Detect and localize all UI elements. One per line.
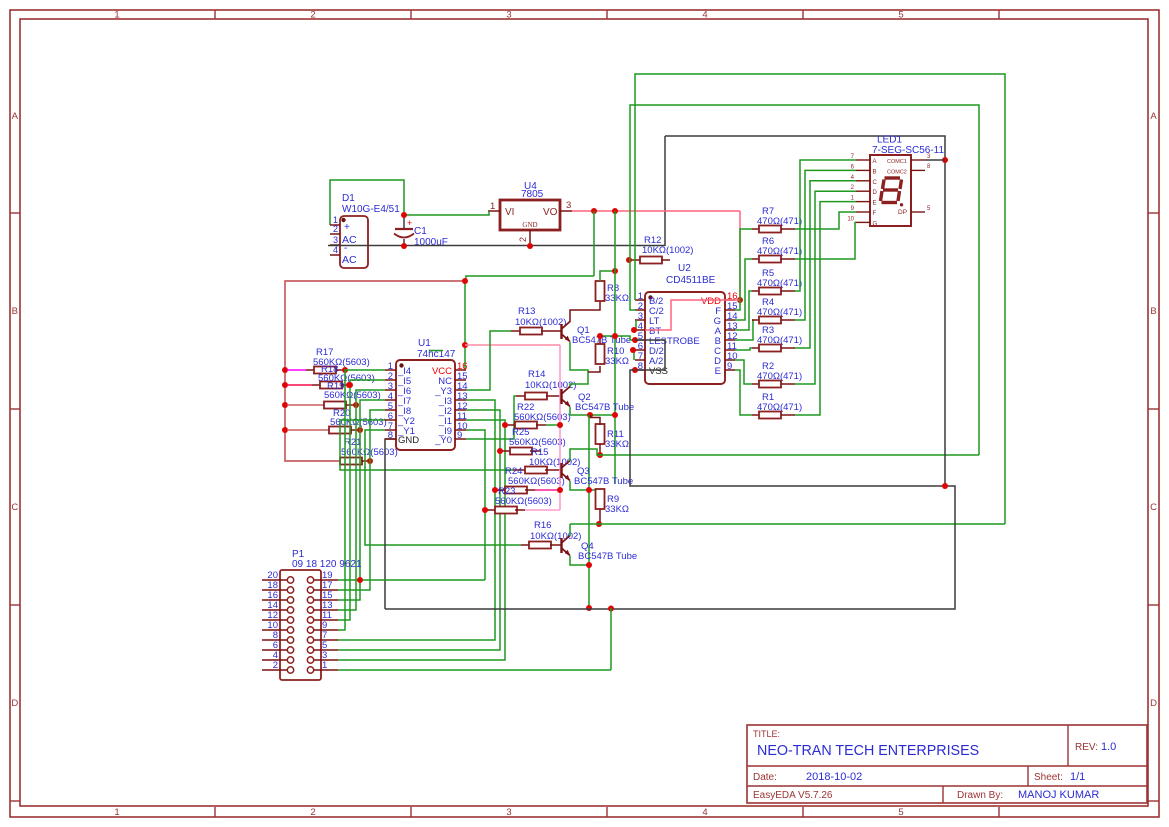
wire: U1 _I2 pin12 down to P1 pin5 [338, 410, 500, 650]
svg-text:4: 4 [333, 245, 338, 255]
node: junction (500,451) [497, 448, 503, 454]
wire: U2 F pin15 to R7 [735, 229, 752, 310]
LED1 pin stub segment E [856, 201, 870, 203]
wire: P1 pin1 riser to GND rail [610, 608, 612, 670]
P1 right pin 5 stub [314, 649, 338, 651]
P1 right pin 3 stub [314, 659, 338, 661]
wire: green jumper U2 pins 3-4 [635, 320, 637, 330]
LED1 pin stub segment A [856, 159, 870, 161]
svg-text:09 18 120 9621: 09 18 120 9621 [292, 559, 362, 570]
node: U2 VSS pin8 [632, 367, 638, 373]
wire: red segment to R20 [287, 429, 329, 431]
node: riser x615 crossing [612, 333, 618, 339]
voltage regulator U4 7805 [500, 200, 560, 230]
7-segment display LED1 [870, 155, 911, 226]
svg-text:GND: GND [522, 221, 537, 229]
U2 left pin 3 stub [635, 319, 645, 321]
border tick right [1148, 800, 1159, 802]
P1 left pin 12 stub [262, 619, 287, 621]
LED1 pin stub segment F [856, 211, 870, 213]
P1 right pin 9 stub [314, 629, 338, 631]
LED1 pin stub segment G [856, 221, 870, 223]
wire: Q3 emitter row [570, 481, 600, 490]
transistor Q1 [560, 324, 562, 339]
wire: green jumper U2 pins 6-7 [633, 350, 635, 360]
svg-text:560KΩ(5603): 560KΩ(5603) [514, 412, 571, 423]
P1 left pin 10 stub [262, 629, 287, 631]
svg-text:VI: VI [505, 207, 514, 218]
U1 right pin 15 stub [455, 379, 466, 381]
resistor R6 [752, 258, 759, 260]
svg-text:COMC1: COMC1 [887, 159, 907, 165]
node: junction (505,425) [502, 422, 508, 428]
D1 pin at y=234 [330, 233, 340, 235]
svg-text:E: E [873, 201, 877, 207]
wire: U1 pin3 net down to P1 pin13 [338, 390, 385, 610]
U1 right pin 16 stub [455, 369, 466, 371]
svg-text:B: B [1150, 306, 1156, 317]
P1 right pin 17 stub [314, 589, 338, 591]
wire: R10 bottom to cascade [588, 366, 600, 372]
svg-text:33KΩ: 33KΩ [605, 439, 629, 450]
wire: C1 top to U4 VI (green) [404, 211, 489, 215]
svg-text:9: 9 [727, 361, 732, 372]
node: R11 bottom junction [597, 452, 603, 458]
node: resistor tap (360,430) [357, 427, 363, 433]
wire: black top loop to COMC1 [665, 136, 945, 486]
wire: C1 top lead [403, 215, 405, 229]
wire: U1 _I3 pin13 down to P1 pin7 [338, 400, 495, 640]
svg-text:VO: VO [543, 207, 558, 218]
P1 right pin 1 stub [314, 669, 338, 671]
svg-text:DP: DP [898, 209, 907, 216]
ground rail (black) from D1 pin3 to right [328, 245, 665, 247]
U1 right pin 10 stub [455, 429, 466, 431]
wire: U1 _Y0 pin9 to R14 riser [466, 396, 516, 439]
U2 left pin 2 stub [635, 309, 645, 311]
P1 right pin 13 stub [314, 609, 338, 611]
LED1 digit 8 [885, 176, 901, 179]
U4 pin 3 stub [560, 210, 572, 212]
svg-text:5: 5 [898, 807, 903, 818]
P1 left pin 8 stub [262, 639, 287, 641]
U4 pin 1 stub [488, 210, 500, 212]
wire: pink +5V drop to U2 VDD [739, 211, 741, 300]
U2 left pin 6 stub [635, 349, 645, 351]
node: rectifier output junction [401, 212, 407, 218]
LED1 COMC1 stub [911, 159, 925, 161]
wire: U1 pin6 (_Y2) to R24 [340, 420, 513, 470]
border tick top [214, 10, 216, 19]
wire: +5V rail from U4 VO (pink) [572, 210, 740, 212]
svg-text:A: A [873, 159, 877, 165]
svg-text:D: D [873, 190, 878, 196]
wire: VCC riser to U1 pin16 [464, 281, 466, 370]
border tick left [10, 408, 20, 410]
node: U2 VDD pin16 [737, 297, 743, 303]
wire: long green riser x=615 [614, 211, 616, 484]
U2 right pin 16 stub [725, 299, 735, 301]
resistor R12 [631, 259, 640, 261]
border tick bottom [214, 807, 216, 817]
U2 left pin 1 stub [635, 299, 645, 301]
P1 left pin 20 stub [262, 579, 287, 581]
P1 left pin 4 stub [262, 659, 287, 661]
resistor R14 [516, 395, 525, 397]
node: junction (495,490) [492, 487, 498, 493]
svg-text:3: 3 [506, 807, 511, 818]
U1 right pin 11 stub [455, 419, 466, 421]
node: Q3 emitter junction [586, 487, 592, 493]
D1 pin at y=225 [330, 224, 340, 226]
node: R9 bottom junction [596, 521, 602, 527]
svg-text:C: C [873, 180, 878, 186]
node: R10 top [597, 333, 603, 339]
wire: R23 deep pink link [535, 489, 560, 491]
svg-text:560KΩ(5603): 560KΩ(5603) [495, 496, 552, 507]
border tick top [410, 10, 412, 19]
wire: U2 A pin13 to R5 [735, 291, 752, 330]
U2 left pin 8 stub [635, 369, 645, 371]
svg-text:470Ω(471): 470Ω(471) [757, 335, 802, 346]
svg-text:B: B [873, 169, 877, 175]
resistor R21 [340, 458, 362, 465]
resistor R4 [752, 319, 759, 321]
U2 left pin 5 stub [635, 339, 645, 341]
U1 left pin 6 stub [385, 419, 396, 421]
svg-text:EasyEDA V5.7.26: EasyEDA V5.7.26 [753, 790, 833, 801]
svg-text:AC: AC [342, 254, 357, 266]
svg-text:1: 1 [114, 10, 119, 21]
wire: inner green loop (C/2 net) [630, 105, 979, 455]
node: C1 bottom on GND rail [401, 243, 407, 249]
svg-text:U1: U1 [418, 338, 431, 349]
border tick bottom [998, 807, 1000, 817]
svg-text:D1: D1 [342, 193, 355, 204]
P1 left pin 6 stub [262, 649, 287, 651]
node: bus junction y=430 [282, 427, 288, 433]
wire: red segment to R19 [287, 404, 324, 406]
svg-text:-: - [344, 243, 347, 254]
svg-text:B: B [12, 306, 18, 317]
svg-text:2018-10-02: 2018-10-02 [806, 771, 862, 783]
svg-text:3: 3 [566, 200, 571, 211]
D1 pin1 indicator dot [341, 218, 345, 222]
border tick left [10, 604, 20, 606]
wire: Q2 emitter row [570, 407, 615, 415]
svg-text:470Ω(471): 470Ω(471) [757, 278, 802, 289]
wire: light pink column [559, 345, 561, 510]
P1 left pin 14 stub [262, 609, 287, 611]
node: R8 top junction [612, 268, 618, 274]
wire: U1 pin2 net down to P1 pin11 [338, 380, 385, 620]
wire: R7 to LED segment F [795, 212, 856, 229]
U1 pin1 indicator dot [399, 363, 403, 367]
svg-text:10: 10 [847, 216, 854, 222]
border tick bottom [410, 807, 412, 817]
border tick right [1148, 408, 1159, 410]
U2 right pin 11 stub [725, 349, 735, 351]
svg-text:4: 4 [702, 10, 707, 21]
wire: black VSS to ground loop [385, 370, 955, 609]
wire: U2 B pin12 to R4 [735, 320, 753, 340]
wire: R6 to LED segment G [795, 222, 856, 259]
svg-text:10KΩ(1002): 10KΩ(1002) [525, 380, 576, 391]
U2 right pin 15 stub [725, 309, 735, 311]
svg-text:33KΩ: 33KΩ [605, 356, 629, 367]
svg-text:Drawn By:: Drawn By: [957, 790, 1003, 801]
node: U4 GND on GND rail [527, 243, 533, 249]
svg-text:560KΩ(5603): 560KΩ(5603) [330, 417, 387, 428]
node: VSS junction [942, 483, 948, 489]
svg-text:1.0: 1.0 [1101, 741, 1116, 753]
svg-text:CD4511BE: CD4511BE [666, 275, 716, 286]
resistor R8 [596, 281, 605, 301]
wire: AC input pin1 to top of C1 (green) [330, 180, 404, 225]
U1 right pin 13 stub [455, 399, 466, 401]
wire: black LESTROBE jumper to VSS [635, 340, 665, 370]
svg-text:470Ω(471): 470Ω(471) [757, 246, 802, 257]
P1 right pin 7 stub [314, 639, 338, 641]
svg-text:3: 3 [333, 235, 338, 245]
svg-text:D: D [11, 698, 18, 709]
wire: crimson segment to R18 [287, 384, 312, 386]
P1 right pin 19 stub [314, 579, 338, 581]
wire: magenta segment to R17 [287, 369, 306, 371]
P1 right pin 11 stub [314, 619, 338, 621]
svg-text:G: G [873, 221, 878, 227]
resistor R25 (R15 row) [502, 450, 510, 452]
svg-text:+: + [344, 222, 350, 233]
LED1 pin stub segment B [856, 169, 870, 171]
node: COMC1 junction [942, 157, 948, 163]
wire: U1 GND pin8 black to bottom rail [385, 439, 396, 609]
IC U1 74hc147 [396, 360, 455, 450]
svg-text:A: A [1150, 111, 1157, 122]
border tick bottom [606, 807, 608, 817]
U1 left pin 1 stub [385, 369, 396, 371]
LED1 pin stub segment C [856, 180, 870, 182]
node: junction (560,425) [557, 422, 563, 428]
wire: R10 top lead [599, 336, 601, 344]
node: +5V junction B [612, 208, 618, 214]
node: emitter bus on GND rail [586, 605, 592, 611]
U2 right pin 12 stub [725, 339, 735, 341]
resistor R17 [306, 369, 314, 371]
wire: emitter bus x=589 [588, 415, 590, 608]
svg-text:7-SEG-SC56-11: 7-SEG-SC56-11 [872, 145, 945, 156]
svg-text:1/1: 1/1 [1070, 771, 1085, 783]
U2 left pin 4 stub [635, 329, 645, 331]
resistor R16 [521, 544, 529, 546]
resistor R22 [507, 424, 515, 426]
LED1 pin stub segment D [856, 190, 870, 192]
U1 left pin 5 stub [385, 409, 396, 411]
resistor R11 [596, 424, 605, 444]
P1 right pin 15 stub [314, 599, 338, 601]
node: red bus to green riser [462, 278, 468, 284]
U1 left pin 3 stub [385, 389, 396, 391]
svg-text:470Ω(471): 470Ω(471) [757, 307, 802, 318]
node: bus junction y=405 [282, 402, 288, 408]
transistor Q3 [560, 463, 562, 478]
border tick bottom [802, 807, 804, 817]
svg-text:C: C [11, 502, 18, 513]
svg-text:NEO-TRAN TECH ENTERPRISES: NEO-TRAN TECH ENTERPRISES [757, 743, 979, 759]
wire: U1 pin5 net down to P1 pin17 [338, 410, 385, 590]
wire: R1 to LED segment E [795, 202, 856, 415]
U1 left pin 7 stub [385, 429, 396, 431]
svg-text:2: 2 [518, 237, 528, 242]
resistor R23 [497, 489, 505, 491]
svg-text:MANOJ KUMAR: MANOJ KUMAR [1018, 789, 1099, 801]
resistor R13 [511, 330, 520, 332]
node: resistor tap (349,385) [346, 382, 352, 388]
resistor R1 [752, 414, 759, 416]
wire: black GND riser to top loop [664, 136, 666, 246]
svg-text:470Ω(471): 470Ω(471) [757, 402, 802, 413]
svg-text:10KΩ(1002): 10KΩ(1002) [642, 245, 693, 256]
wire: R2 to LED segment D [795, 191, 856, 384]
wire: pink tap to light pink column [465, 344, 560, 346]
wire: U1 pin7 (_Y1) to R16 [365, 430, 521, 545]
svg-text:8: 8 [388, 430, 393, 441]
transistor Q2 [560, 389, 562, 404]
border tick right [1148, 212, 1159, 214]
svg-text:1000uF: 1000uF [414, 237, 448, 248]
D1 pin at y=255 [330, 254, 340, 256]
svg-text:2: 2 [310, 10, 315, 21]
LED1 COMC2 stub [911, 169, 925, 171]
U1 left pin 4 stub [385, 399, 396, 401]
resistor R19 [324, 402, 346, 409]
wire: U1 pin4 net down to P1 pin15 [338, 400, 385, 600]
red supply bus vertical [285, 281, 465, 461]
wire: U1 _I9 pin10 down to P1 pin19 riser [466, 430, 485, 580]
node: junction (485,510) [482, 507, 488, 513]
wire: Q4 collector up to B net [569, 524, 571, 536]
svg-text:A: A [12, 111, 19, 122]
wire: U2 D pin10 to R2 [735, 360, 752, 384]
U2 pin1 indicator dot [648, 295, 652, 299]
svg-text:4: 4 [702, 807, 707, 818]
connector P1 [280, 570, 321, 680]
wire: pink VDD to BT pin4 of U2 [645, 300, 740, 330]
U2 left pin 7 stub [635, 359, 645, 361]
svg-text:BC547B Tube: BC547B Tube [574, 476, 633, 487]
svg-text:2: 2 [310, 807, 315, 818]
wire: U1 pin1 net down to P1 pin9 [338, 370, 385, 630]
svg-text:R14: R14 [528, 369, 545, 380]
wire: U2 G pin14 to R6 [735, 259, 752, 320]
node: Q2 emitter junction [587, 412, 593, 418]
wire: P1 pin19 to riser [338, 579, 485, 581]
resistor (bottom of pink loop) [487, 509, 495, 511]
wire: U1 _I1 pin11 down to P1 pin3 [338, 420, 505, 660]
svg-text:9: 9 [457, 430, 462, 441]
wire: stub over U1 label [429, 350, 443, 352]
border tick top [802, 10, 804, 19]
svg-text:33KΩ: 33KΩ [605, 504, 629, 515]
svg-text:R16: R16 [534, 520, 551, 531]
node: U2 LESTROBE pin5 [632, 337, 638, 343]
U2 right pin 9 stub [725, 369, 735, 371]
border tick top [606, 10, 608, 19]
U2 right pin 13 stub [725, 329, 735, 331]
resistor R18 [312, 384, 320, 386]
wire: R10 top to LESTROBE [600, 336, 635, 340]
resistor R20 [329, 427, 351, 434]
bridge rectifier D1 [340, 216, 368, 268]
wire: +5V down to VCC riser [593, 211, 595, 276]
wire: R9 bottom lead [599, 509, 601, 524]
wire: R22 to pink column [546, 424, 560, 426]
wire: Q1 emitter cascade to Q2 collector [570, 342, 588, 388]
wire: outer green loop (B/2 net) [635, 74, 1005, 524]
U1 right pin 14 stub [455, 389, 466, 391]
U1 left pin 2 stub [385, 379, 396, 381]
wire: C1 bottom lead [403, 239, 405, 246]
svg-text:1: 1 [114, 807, 119, 818]
svg-text:REV:: REV: [1075, 742, 1098, 753]
resistor R7 [752, 228, 759, 230]
wire: U2 E pin9 to R1 [735, 370, 752, 415]
resistor R24 [513, 469, 525, 471]
U4 pin 2 stub (GND) [529, 230, 531, 246]
P1 left pin 18 stub [262, 589, 287, 591]
node: R12 left junction [626, 257, 632, 263]
node: resistor tap (370,461) [367, 458, 373, 464]
svg-text:Date:: Date: [753, 772, 777, 783]
wire: U1 _Y3 pin14 to R13 [466, 331, 511, 390]
svg-text:LED1: LED1 [877, 135, 902, 146]
svg-text:W10G-E4/51: W10G-E4/51 [342, 204, 400, 215]
wire: R5 to LED segment A [795, 160, 856, 291]
resistor R9 [596, 489, 605, 509]
svg-text:Sheet:: Sheet: [1034, 772, 1063, 783]
U1 right pin 12 stub [455, 409, 466, 411]
P1 left pin 16 stub [262, 599, 287, 601]
node: pin19 crossing junction [357, 577, 363, 583]
wire: Q1 collector up to R8 [570, 301, 600, 322]
U1 right pin 9 stub [455, 438, 466, 440]
transistor Q4 [560, 538, 562, 553]
node: VCC riser / pink tap [462, 342, 468, 348]
wire: R4 to LED segment B [795, 170, 856, 320]
svg-text:F: F [873, 211, 877, 217]
IC U2 CD4511BE [645, 292, 725, 384]
D1 pin at y=245 [330, 244, 340, 246]
node: bus junction y=370 [282, 367, 288, 373]
svg-text:C1: C1 [414, 226, 427, 237]
node: resistor tap (356,405) [353, 402, 359, 408]
node: bus junction y=385 [282, 382, 288, 388]
svg-text:1: 1 [322, 660, 327, 671]
node: P1 pin1 on GND rail [608, 606, 614, 612]
node: riser x615 bottom [612, 412, 618, 418]
svg-text:3: 3 [506, 10, 511, 21]
svg-text:TITLE:: TITLE: [753, 729, 780, 739]
LED1 DP stub [911, 211, 925, 213]
wire: U2 C pin11 to R3 [735, 348, 752, 350]
node: +5V junction A [591, 208, 597, 214]
border tick right [1148, 604, 1159, 606]
wire: long green segment C net [600, 454, 979, 456]
wire: R11 top lead [591, 415, 601, 425]
svg-text:470Ω(471): 470Ω(471) [757, 216, 802, 227]
wire: light pink bottom link [525, 509, 560, 511]
svg-text:1: 1 [490, 201, 495, 212]
